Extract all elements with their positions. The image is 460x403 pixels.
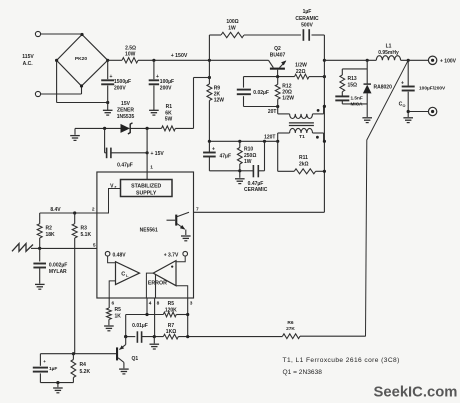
svg-text:27K: 27K xyxy=(286,326,295,332)
svg-text:1: 1 xyxy=(150,165,153,171)
svg-text:8.4V: 8.4V xyxy=(50,207,61,213)
svg-text:L1: L1 xyxy=(386,44,392,50)
svg-text:+ 100V: + 100V xyxy=(440,58,457,64)
svg-text:250Ω: 250Ω xyxy=(244,153,256,159)
svg-text:100Ω: 100Ω xyxy=(226,19,238,25)
svg-text:100µF/200V: 100µF/200V xyxy=(419,85,446,91)
svg-text:5: 5 xyxy=(93,242,96,248)
svg-text:+: + xyxy=(212,147,215,153)
svg-text:ZENER: ZENER xyxy=(117,108,134,114)
svg-text:10W: 10W xyxy=(125,52,136,58)
svg-text:2: 2 xyxy=(92,207,95,213)
svg-text:+: + xyxy=(401,81,404,87)
svg-text:O: O xyxy=(403,104,406,108)
svg-text:0.48V: 0.48V xyxy=(113,252,127,258)
svg-text:R6: R6 xyxy=(287,320,293,326)
svg-text:20Ω: 20Ω xyxy=(282,89,292,95)
svg-text:3: 3 xyxy=(190,301,193,307)
svg-text:R7: R7 xyxy=(168,323,175,329)
svg-text:1µF: 1µF xyxy=(49,366,57,372)
svg-text:A.C.: A.C. xyxy=(23,61,34,67)
svg-text:22Ω: 22Ω xyxy=(296,69,306,75)
svg-text:0.01µF: 0.01µF xyxy=(132,323,148,329)
svg-text:R11: R11 xyxy=(299,155,308,161)
svg-text:RA8020: RA8020 xyxy=(374,84,393,90)
svg-text:1W: 1W xyxy=(228,26,236,32)
svg-text:NE5561: NE5561 xyxy=(140,228,158,234)
svg-text:+: + xyxy=(110,74,113,80)
svg-text:R5: R5 xyxy=(168,301,175,307)
svg-text:T1, L1 Ferroxcube 2616 core (3: T1, L1 Ferroxcube 2616 core (3C8) xyxy=(283,357,400,364)
svg-text:5.2K: 5.2K xyxy=(80,369,91,375)
svg-text:7: 7 xyxy=(196,207,199,213)
svg-text:120T: 120T xyxy=(264,135,275,141)
svg-text:R1: R1 xyxy=(166,104,173,110)
svg-text:PK20: PK20 xyxy=(75,56,88,62)
svg-text:120K: 120K xyxy=(165,307,177,313)
svg-text:1µF: 1µF xyxy=(303,9,312,15)
svg-text:+ 150V: + 150V xyxy=(171,53,188,59)
svg-text:1W: 1W xyxy=(244,159,252,165)
svg-text:R2: R2 xyxy=(46,226,53,232)
svg-text:4: 4 xyxy=(149,301,152,307)
svg-text:+: + xyxy=(43,359,46,364)
svg-text:+ 15V: + 15V xyxy=(151,151,165,157)
svg-text:R10: R10 xyxy=(244,147,253,153)
svg-text:8: 8 xyxy=(157,301,160,307)
svg-text:1.5nF: 1.5nF xyxy=(351,96,363,101)
svg-text:SUPPLY: SUPPLY xyxy=(136,191,157,197)
svg-text:1/2W: 1/2W xyxy=(295,62,307,68)
svg-text:STABILIZED: STABILIZED xyxy=(131,183,161,189)
svg-text:200V: 200V xyxy=(160,86,172,92)
svg-text:5W: 5W xyxy=(165,117,173,123)
svg-text:1K: 1K xyxy=(115,314,122,320)
svg-text:CERAMIC: CERAMIC xyxy=(295,16,319,22)
svg-text:R3: R3 xyxy=(81,226,88,232)
svg-text:15V: 15V xyxy=(121,101,131,107)
svg-text:BU407: BU407 xyxy=(270,52,286,58)
svg-text:0.95mHy: 0.95mHy xyxy=(378,50,399,56)
svg-text:2K: 2K xyxy=(214,91,221,97)
svg-text:6K: 6K xyxy=(165,110,172,116)
svg-text:+: + xyxy=(156,74,159,80)
svg-text:20T: 20T xyxy=(268,109,277,115)
svg-text:MYLAR: MYLAR xyxy=(49,269,67,275)
svg-text:ERROR: ERROR xyxy=(148,280,167,286)
svg-text:R12: R12 xyxy=(282,83,291,89)
svg-text:0.47µF: 0.47µF xyxy=(117,163,133,169)
svg-text:1N5535: 1N5535 xyxy=(117,114,135,120)
svg-text:Q2: Q2 xyxy=(274,46,281,52)
svg-text:1/2W: 1/2W xyxy=(282,96,294,102)
svg-text:18K: 18K xyxy=(46,232,56,238)
svg-text:0.002µF: 0.002µF xyxy=(49,262,67,268)
svg-text:1KΩ: 1KΩ xyxy=(166,329,176,335)
svg-text:100µF: 100µF xyxy=(160,79,174,85)
svg-text:T1: T1 xyxy=(299,134,305,140)
svg-text:200V: 200V xyxy=(114,86,126,92)
svg-text:15Ω: 15Ω xyxy=(348,82,358,88)
svg-text:2kΩ: 2kΩ xyxy=(299,161,309,167)
svg-text:5.1K: 5.1K xyxy=(81,232,92,238)
svg-text:MICA: MICA xyxy=(351,102,364,107)
svg-text:SeekIC.com: SeekIC.com xyxy=(374,384,458,400)
svg-text:115V: 115V xyxy=(22,54,34,60)
svg-text:R5: R5 xyxy=(115,307,122,313)
svg-text:R4: R4 xyxy=(80,362,87,368)
svg-text:Q1: Q1 xyxy=(132,356,139,362)
svg-text:12W: 12W xyxy=(214,98,225,104)
svg-text:C: C xyxy=(121,272,125,278)
svg-text:2.5Ω: 2.5Ω xyxy=(125,45,136,51)
svg-text:6: 6 xyxy=(112,301,115,307)
svg-text:CERAMIC: CERAMIC xyxy=(244,187,268,193)
svg-text:Q1 = 2N3638: Q1 = 2N3638 xyxy=(283,369,323,376)
svg-text:1500µF: 1500µF xyxy=(114,79,131,85)
svg-text:500V: 500V xyxy=(301,23,313,29)
svg-text:0.47µF: 0.47µF xyxy=(248,181,264,187)
svg-text:R13: R13 xyxy=(348,76,357,82)
svg-text:+ 3.7V: + 3.7V xyxy=(164,252,179,258)
svg-text:47µF: 47µF xyxy=(220,154,232,160)
svg-text:0.02µF: 0.02µF xyxy=(253,90,269,96)
